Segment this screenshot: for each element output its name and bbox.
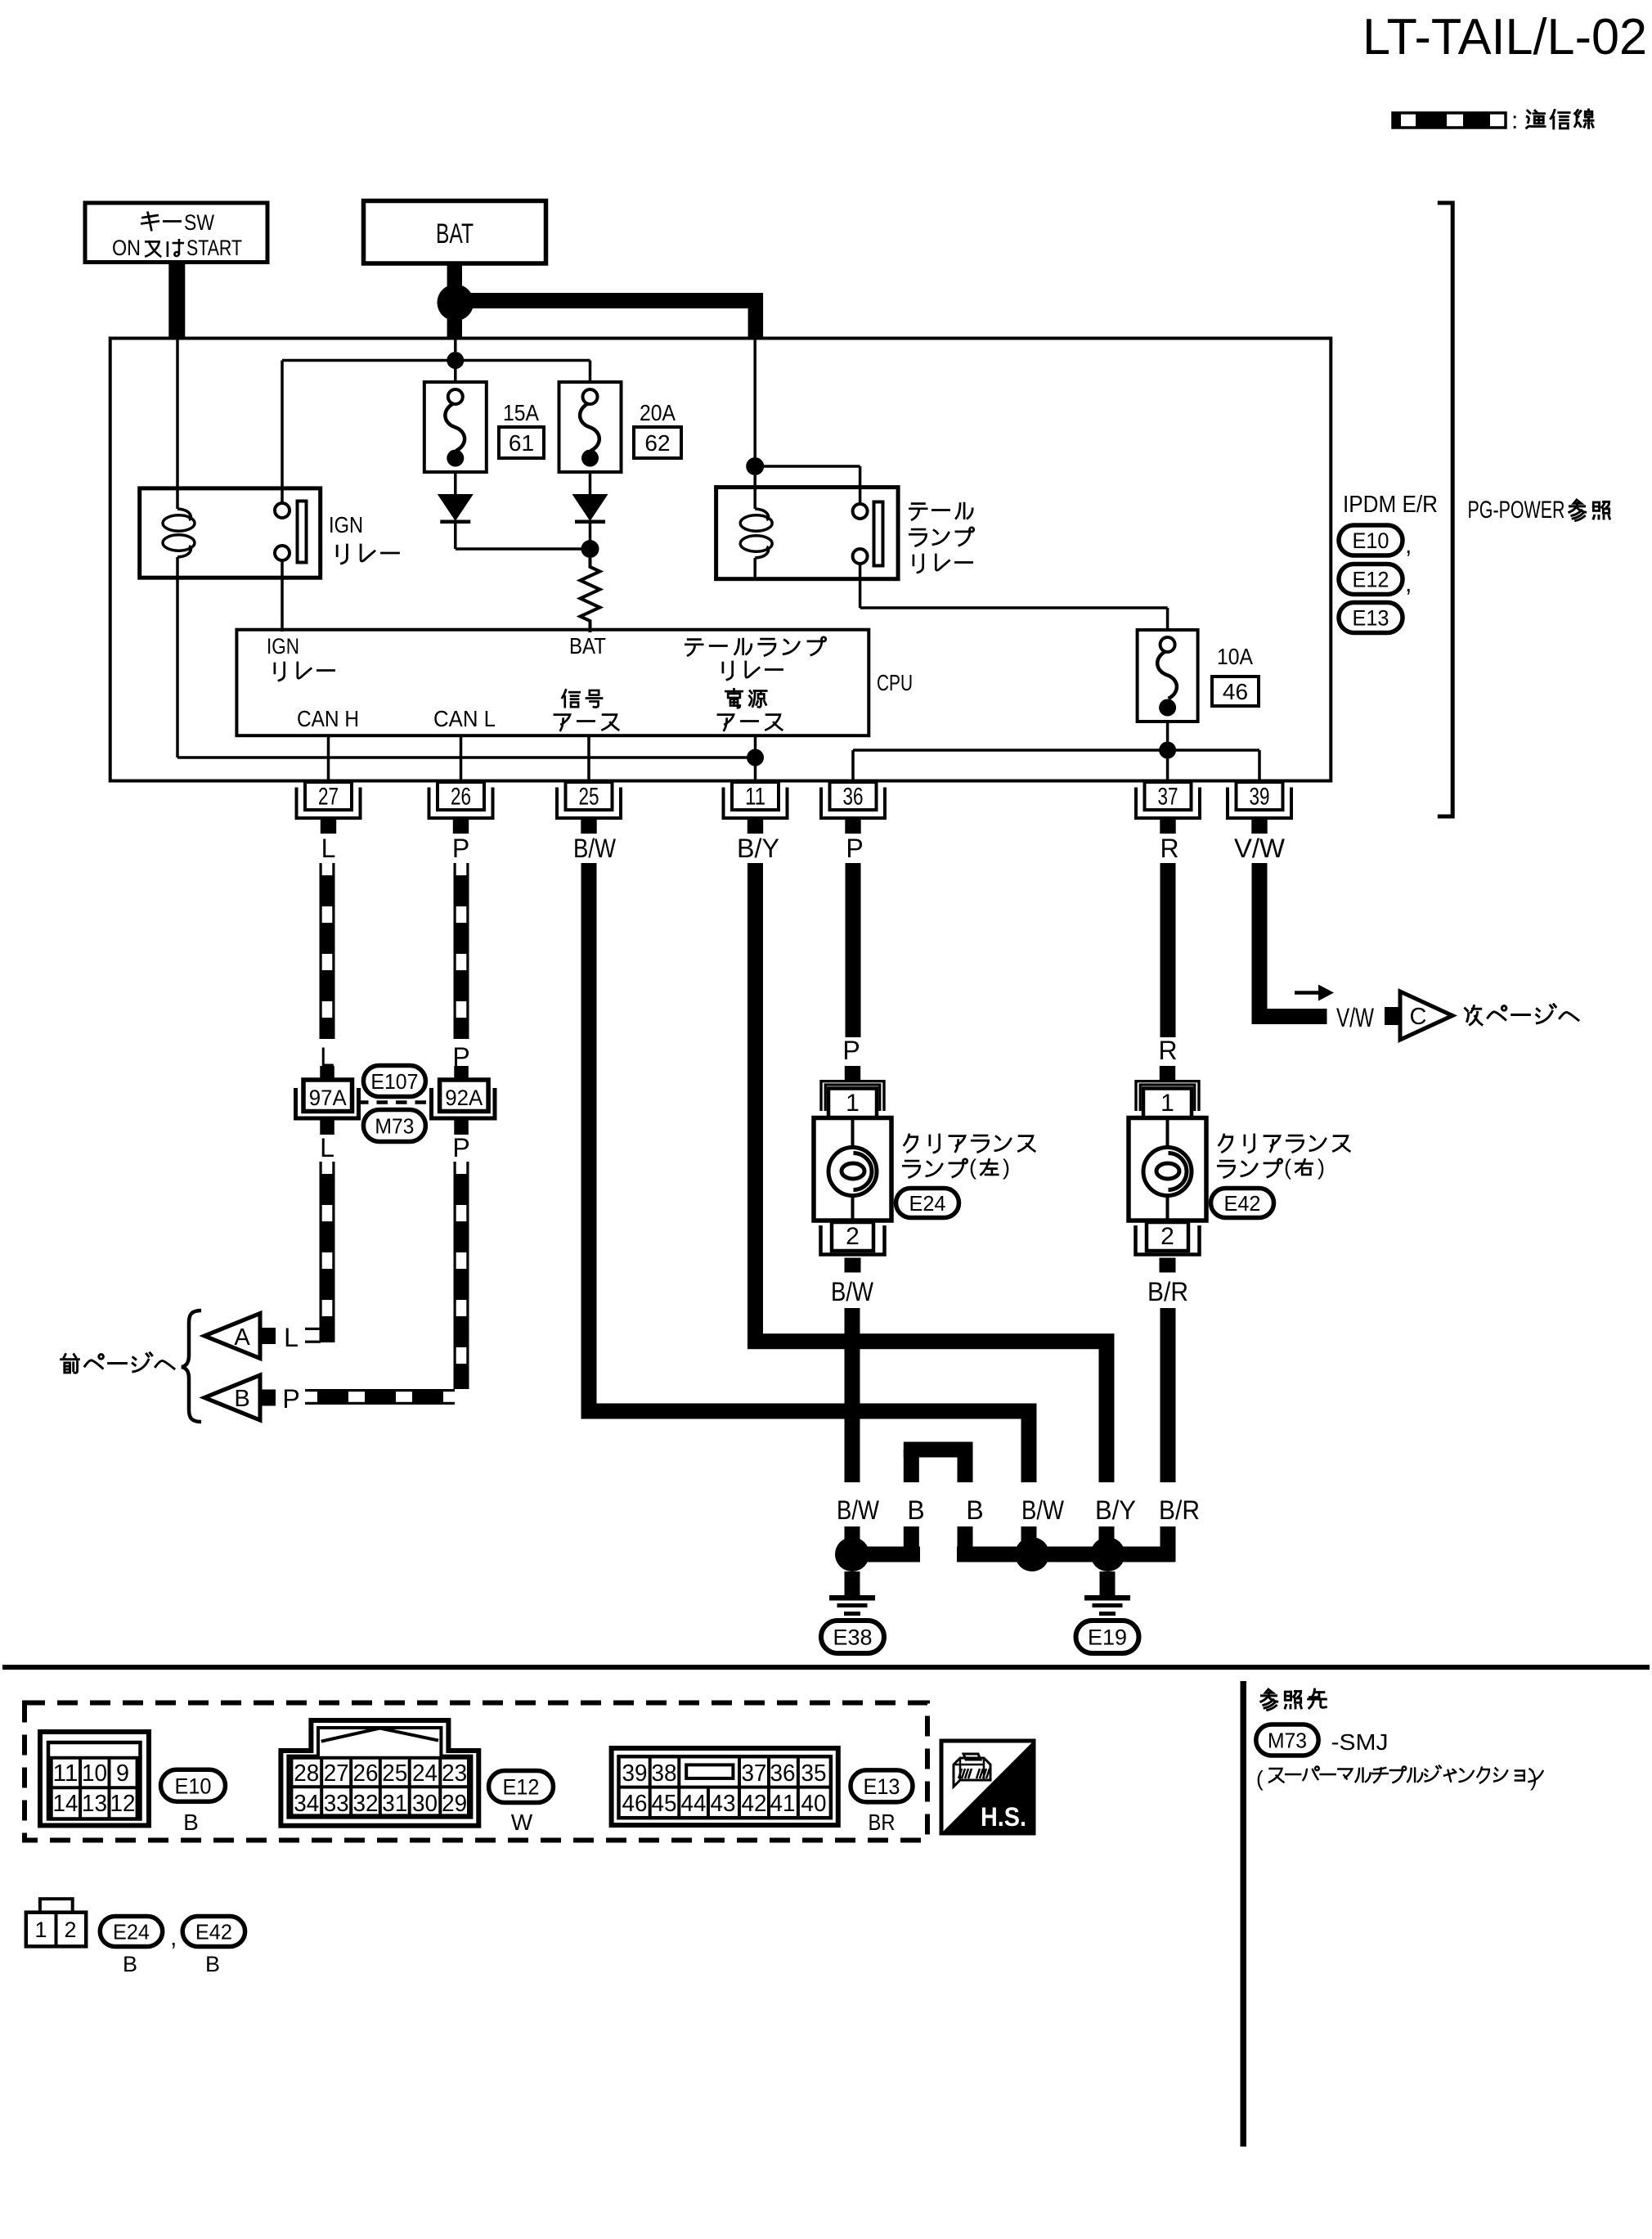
wire R pin37 to clearance lamp right [1160, 863, 1176, 1037]
svg-text:B: B [907, 1495, 924, 1525]
svg-text:11: 11 [745, 784, 765, 811]
svg-text:61: 61 [509, 430, 534, 456]
svg-text:41: 41 [770, 1791, 796, 1817]
svg-text:A: A [234, 1324, 250, 1351]
svg-text:P: P [282, 1384, 299, 1414]
wire key-sw to IPDM [168, 263, 185, 339]
bracket PG-POWER [1438, 203, 1452, 816]
svg-text:14: 14 [53, 1791, 79, 1817]
svg-text:15A: 15A [503, 400, 539, 425]
connector E107 oval [363, 1066, 425, 1097]
svg-text:36: 36 [770, 1760, 796, 1787]
svg-text:E24: E24 [113, 1919, 150, 1944]
svg-text:25: 25 [579, 784, 599, 811]
wire thick bus BAT to tail lamp relay [465, 293, 763, 308]
svg-text:42: 42 [742, 1791, 767, 1817]
svg-text:BAT: BAT [436, 218, 474, 250]
svg-text:29: 29 [442, 1791, 467, 1817]
resistor R1 [581, 558, 600, 632]
svg-text:B: B [205, 1952, 220, 1976]
svg-text:32: 32 [353, 1791, 379, 1817]
svg-text:25: 25 [382, 1760, 407, 1787]
node ground dot middle [1015, 1537, 1049, 1571]
svg-text:M73: M73 [1268, 1728, 1307, 1752]
connector 92A [454, 1066, 469, 1080]
power source キーSW ON又はSTART [85, 203, 267, 263]
svg-text:13: 13 [82, 1791, 107, 1817]
wire fuse20 to diode [589, 472, 592, 494]
connector face E10 [40, 1732, 149, 1826]
svg-text:B/R: B/R [1147, 1277, 1188, 1306]
wire B/R lamp right down [1160, 1308, 1176, 1482]
svg-text:M73: M73 [375, 1113, 414, 1138]
connector pin 26 IPDM [438, 782, 484, 810]
connector E10 oval [1339, 525, 1403, 555]
svg-text:IGN: IGN [267, 634, 299, 659]
svg-text:B: B [183, 1810, 199, 1835]
node fuse feed junction [447, 352, 464, 369]
svg-text:-SMJ: -SMJ [1331, 1729, 1389, 1755]
separator line [2, 1665, 1650, 1670]
svg-text:1: 1 [1160, 1090, 1174, 1117]
svg-text:L: L [284, 1323, 299, 1352]
svg-text:34: 34 [294, 1791, 319, 1817]
svg-text:): ) [1318, 1155, 1325, 1180]
connector E24 oval label 2 [100, 1917, 162, 1947]
svg-text:46: 46 [622, 1791, 648, 1817]
wire B/W pin25 down and right [581, 863, 597, 1419]
brace previous page [182, 1311, 201, 1422]
connector detail dashed box [25, 1703, 927, 1841]
svg-text:92A: 92A [445, 1086, 483, 1110]
svg-text:PG-POWER: PG-POWER [1468, 497, 1565, 524]
svg-text:H.S.: H.S. [981, 1802, 1026, 1832]
lamp クリアランスランプ(右) E42 [1160, 1066, 1175, 1080]
svg-text:E13: E13 [1353, 606, 1389, 631]
connector face E12 [281, 1720, 478, 1826]
svg-text:B: B [966, 1495, 983, 1525]
connector 97A [320, 1066, 334, 1080]
wire P to arrow B dashed [305, 1389, 455, 1392]
svg-text:36: 36 [843, 784, 864, 811]
svg-text:26: 26 [451, 784, 471, 811]
ground bus segments [867, 1547, 920, 1562]
svg-text:P: P [452, 1133, 469, 1162]
svg-text:,: , [170, 1924, 177, 1951]
wire V/W pin 39 down [1252, 863, 1268, 1024]
label 参照先 [1261, 1689, 1277, 1710]
svg-text:44: 44 [681, 1791, 707, 1817]
wire IGN relay contact to CPU [281, 560, 284, 632]
svg-text:E10: E10 [175, 1774, 212, 1798]
svg-text:BR: BR [869, 1810, 896, 1835]
connector M73 oval reference [1256, 1724, 1318, 1756]
svg-text:38: 38 [652, 1760, 677, 1787]
connector pin 25 IPDM [566, 782, 613, 810]
wire BAT stub [447, 263, 462, 286]
svg-text:45: 45 [652, 1791, 677, 1817]
svg-text:E10: E10 [1353, 528, 1389, 553]
svg-text:9: 9 [116, 1760, 129, 1787]
svg-text:37: 37 [742, 1760, 767, 1787]
svg-text:27: 27 [324, 1760, 349, 1787]
svg-text:12: 12 [110, 1791, 136, 1817]
svg-text:R: R [1158, 1036, 1177, 1065]
reference divider line [1241, 1681, 1247, 2147]
wire P CAN L dashed upper [454, 863, 456, 1039]
power source BAT [364, 201, 546, 264]
wire B/Y pin11 down and right [747, 863, 763, 1349]
svg-text:E12: E12 [1353, 568, 1389, 592]
svg-text:,: , [1405, 532, 1412, 559]
diode D2 [572, 494, 608, 521]
connector pin 27 IPDM [305, 782, 352, 810]
wire relay coil grounds to pin 11 [177, 756, 756, 759]
svg-text:LT-TAIL/L-02: LT-TAIL/L-02 [1362, 9, 1647, 65]
connector E42 oval label 2 [182, 1917, 245, 1947]
svg-text:E42: E42 [195, 1919, 232, 1944]
lamp クリアランスランプ(左) E24 [845, 1066, 860, 1080]
svg-text:30: 30 [412, 1791, 438, 1817]
svg-text:SW: SW [184, 210, 214, 235]
svg-text:26: 26 [353, 1760, 379, 1787]
svg-text:2: 2 [64, 1918, 76, 1942]
wire B/W lamp left to ground [845, 1308, 860, 1482]
svg-text::: : [1511, 107, 1518, 134]
svg-text:E42: E42 [1224, 1191, 1261, 1216]
svg-text:V/W: V/W [1234, 834, 1286, 863]
svg-text:B/W: B/W [831, 1277, 874, 1306]
wire signal ground to pin 25 [587, 735, 590, 784]
svg-text:23: 23 [442, 1760, 467, 1787]
svg-text:28: 28 [294, 1760, 319, 1787]
svg-text:,: , [1405, 570, 1412, 597]
ground E38 [845, 1571, 860, 1596]
svg-text:CPU: CPU [877, 670, 913, 695]
svg-text:B: B [234, 1386, 249, 1412]
connector arrow A [204, 1314, 260, 1359]
fuse 15A 61 [424, 382, 487, 472]
svg-text:ON: ON [112, 236, 141, 260]
svg-text:B/Y: B/Y [1095, 1495, 1136, 1525]
svg-text:10: 10 [82, 1760, 107, 1787]
svg-text:P: P [452, 834, 469, 863]
svg-text:62: 62 [644, 430, 670, 456]
node diode junction [581, 540, 599, 558]
wire horizontal fuse feed y440 [282, 359, 590, 362]
svg-text:11: 11 [53, 1760, 79, 1787]
connector E10 oval label [161, 1769, 226, 1801]
svg-text:(: ( [1284, 1155, 1291, 1180]
svg-text:37: 37 [1158, 784, 1178, 811]
svg-text:E107: E107 [370, 1069, 418, 1094]
connector arrow C to next page [1385, 1007, 1400, 1025]
wire tail relay contact to 10A fuse [859, 564, 862, 608]
svg-text:39: 39 [1250, 784, 1270, 811]
connector face E13 [612, 1748, 838, 1825]
svg-text:31: 31 [382, 1791, 407, 1817]
svg-text:B/W: B/W [1021, 1495, 1065, 1525]
svg-text:46: 46 [1223, 679, 1248, 704]
svg-text:IGN: IGN [329, 512, 363, 537]
svg-text:R: R [1160, 834, 1178, 863]
svg-text:C: C [1410, 1004, 1427, 1030]
svg-text:B/W: B/W [573, 834, 617, 863]
node BAT junction [438, 285, 474, 321]
svg-text:START: START [186, 236, 242, 260]
connector arrow B [204, 1375, 260, 1420]
wire BAT feed inside IPDM [454, 339, 457, 352]
svg-text:V/W: V/W [1336, 1003, 1375, 1032]
svg-text:33: 33 [324, 1791, 349, 1817]
svg-text:97A: 97A [309, 1086, 347, 1110]
connector E12 oval label [489, 1771, 554, 1803]
IPDM E/R box [110, 339, 1331, 781]
wire B jumper loop [904, 1450, 919, 1482]
connector E12 oval [1339, 564, 1403, 595]
svg-text:P: P [842, 1036, 860, 1065]
fuse 10A 46 [1138, 630, 1198, 722]
wire CAN H to pin 27 [327, 735, 330, 784]
svg-text:W: W [511, 1810, 533, 1835]
svg-text:43: 43 [711, 1791, 736, 1817]
node ground dot right [1091, 1537, 1125, 1571]
svg-text:10A: 10A [1217, 644, 1253, 669]
svg-text:24: 24 [412, 1760, 438, 1787]
ground E19 [1100, 1571, 1116, 1596]
svg-text:E13: E13 [864, 1774, 900, 1799]
wire L CAN H dashed lower [320, 1162, 322, 1342]
relay テールランプリレー [716, 488, 899, 579]
svg-text:(: ( [969, 1155, 976, 1180]
svg-text:1: 1 [34, 1918, 47, 1942]
svg-text:E38: E38 [833, 1625, 873, 1650]
node tail relay junction [746, 457, 764, 475]
svg-text:BAT: BAT [569, 633, 606, 659]
svg-text:): ) [1530, 1766, 1538, 1791]
connector pin 36 IPDM [830, 782, 877, 810]
svg-text:E24: E24 [909, 1191, 946, 1216]
wire L CAN H dashed upper [320, 863, 322, 1039]
arrow small right [1295, 991, 1318, 995]
diode D1 [438, 494, 474, 521]
svg-text:E19: E19 [1088, 1625, 1127, 1650]
svg-text:20A: 20A [640, 400, 676, 425]
wire diode outputs join [454, 520, 457, 549]
svg-text:P: P [846, 834, 863, 863]
svg-text:L: L [320, 1133, 334, 1162]
wire 10A fuse to pins 36 37 39 [1166, 722, 1169, 750]
svg-text:1: 1 [846, 1090, 860, 1117]
svg-text:2: 2 [1160, 1223, 1174, 1250]
connector E13 oval label [851, 1770, 913, 1802]
svg-text:39: 39 [622, 1760, 648, 1787]
connector pin 37 IPDM [1145, 782, 1192, 810]
legend communication line sample [1393, 113, 1506, 128]
icon H.S. [941, 1741, 1034, 1833]
svg-text:B/Y: B/Y [737, 834, 779, 863]
SMJ interface dashed line [357, 1100, 432, 1104]
wire P pin36 to clearance lamp left [846, 863, 861, 1037]
svg-text:40: 40 [801, 1791, 827, 1817]
svg-text:IPDM E/R: IPDM E/R [1343, 492, 1438, 518]
svg-text:B/W: B/W [837, 1495, 880, 1525]
svg-text:27: 27 [318, 784, 339, 811]
fuse 20A 62 [559, 382, 622, 472]
svg-text:CAN H: CAN H [297, 706, 359, 731]
wire bus into IPDM to tail relay [753, 339, 756, 458]
svg-text:B: B [123, 1952, 137, 1976]
svg-text:(: ( [1256, 1766, 1264, 1791]
connector pin 11 IPDM [732, 782, 779, 810]
label 前ページへ [61, 1355, 79, 1374]
connector face E24 E42 1 2 [26, 1913, 86, 1947]
svg-text:35: 35 [801, 1760, 827, 1787]
svg-text:): ) [1003, 1155, 1010, 1180]
svg-text:2: 2 [846, 1223, 860, 1250]
wire P CAN L dashed lower [454, 1162, 456, 1389]
svg-text:L: L [321, 834, 336, 863]
connector M73 oval [363, 1110, 425, 1142]
wire L to arrow A dashed [305, 1328, 321, 1330]
wire CAN L to pin 26 [460, 735, 463, 784]
relay IGN リレー [140, 488, 321, 578]
connector E13 oval [1339, 603, 1403, 633]
wire fuse15 to diode [454, 472, 457, 494]
connector pin 39 IPDM [1237, 782, 1283, 810]
svg-text:B/R: B/R [1159, 1495, 1200, 1525]
svg-text:E12: E12 [503, 1775, 540, 1800]
svg-text:CAN L: CAN L [433, 706, 496, 731]
node ground dot left [835, 1537, 869, 1571]
CPU box [236, 630, 869, 736]
label 次ページへ [1465, 1006, 1482, 1025]
